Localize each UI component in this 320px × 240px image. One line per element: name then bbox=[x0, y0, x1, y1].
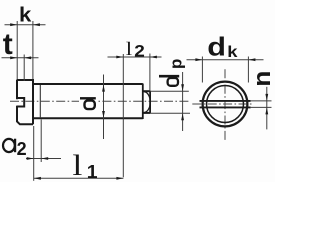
svg-text:p: p bbox=[166, 59, 185, 69]
svg-text:l: l bbox=[72, 149, 82, 182]
svg-text:k: k bbox=[227, 42, 238, 61]
svg-text:t: t bbox=[3, 28, 13, 61]
svg-text:d: d bbox=[207, 33, 226, 62]
svg-text:2: 2 bbox=[134, 41, 145, 60]
svg-text:1: 1 bbox=[87, 162, 98, 182]
svg-text:2: 2 bbox=[17, 139, 27, 159]
svg-text:l: l bbox=[126, 38, 133, 59]
svg-text:n: n bbox=[249, 71, 275, 87]
svg-text:k: k bbox=[19, 3, 31, 26]
